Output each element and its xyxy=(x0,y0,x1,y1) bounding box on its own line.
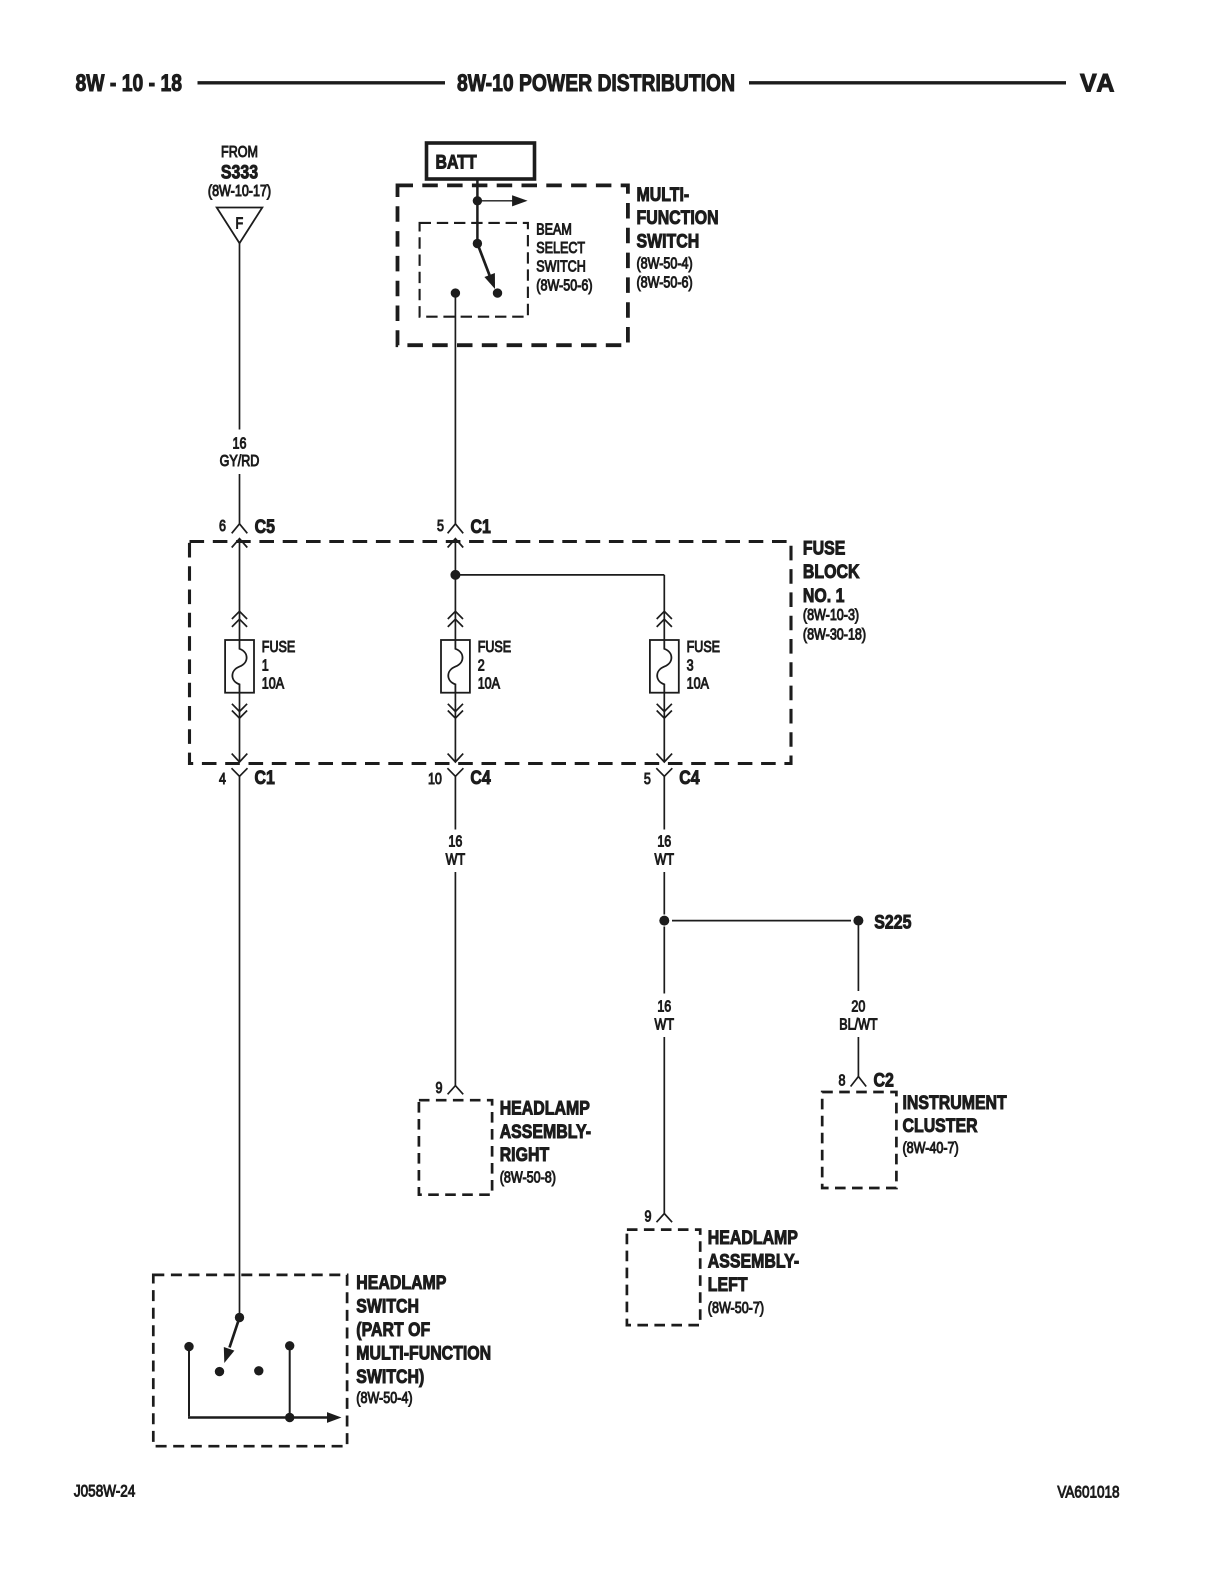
wire S333 feed upper xyxy=(239,243,241,429)
wire S225 to cluster lower xyxy=(857,1037,859,1077)
svg-text:BLOCK: BLOCK xyxy=(803,561,860,583)
headlamp assembly right dashed box xyxy=(419,1100,492,1195)
connector C5 block chevron xyxy=(232,539,248,548)
headlamp switch dashed box xyxy=(153,1275,347,1446)
switch common dot xyxy=(473,239,482,248)
svg-text:WT: WT xyxy=(655,850,675,867)
fuse 3 upper chevron b xyxy=(657,619,672,627)
fuse block out chevron C4 x664.3 xyxy=(657,754,673,762)
svg-text:3: 3 xyxy=(687,656,694,673)
wire below splice junction xyxy=(663,927,665,994)
svg-text:WT: WT xyxy=(446,850,466,867)
svg-text:6: 6 xyxy=(219,517,226,534)
wire splice horizontal xyxy=(672,920,851,922)
svg-text:J058W-24: J058W-24 xyxy=(74,1482,135,1501)
svg-text:8W-10 POWER DISTRIBUTION: 8W-10 POWER DISTRIBUTION xyxy=(457,69,735,96)
beam select switch dashed box xyxy=(420,223,528,317)
connector C1 pin chevron xyxy=(448,524,464,534)
wire down to fuse 3 xyxy=(663,575,665,649)
svg-text:FUSE: FUSE xyxy=(803,537,846,559)
svg-text:HEADLAMP: HEADLAMP xyxy=(708,1226,798,1248)
fuse 1 upper chevron a xyxy=(232,611,247,619)
svg-text:SWITCH): SWITCH) xyxy=(356,1365,424,1387)
connector fork C4 x664.3 xyxy=(656,768,672,776)
fuse 2 lower chevron a xyxy=(448,704,463,712)
svg-text:(8W-30-18): (8W-30-18) xyxy=(803,625,866,642)
switch contact off xyxy=(254,1366,263,1375)
arrowhead switch output xyxy=(327,1412,342,1423)
arrowhead switch blade xyxy=(484,273,495,289)
switch blade xyxy=(477,244,490,277)
wire C5 into fuse 1 xyxy=(239,539,241,649)
svg-text:1: 1 xyxy=(262,656,269,673)
svg-text:SELECT: SELECT xyxy=(536,239,585,256)
connector C5 pin chevron xyxy=(232,524,248,534)
junction dot fuse block xyxy=(450,570,460,580)
fuse F3 element curve xyxy=(657,640,671,693)
svg-text:20: 20 xyxy=(851,997,865,1014)
wire S225 to cluster upper xyxy=(857,926,859,992)
switch contact head xyxy=(285,1341,294,1350)
svg-text:16: 16 xyxy=(233,434,247,451)
splice S225 dot xyxy=(853,916,863,926)
wire fuse3 to splice xyxy=(663,872,665,915)
fuse 2 upper chevron b xyxy=(448,619,463,627)
svg-text:VA601018: VA601018 xyxy=(1057,1483,1119,1502)
svg-text:INSTRUMENT: INSTRUMENT xyxy=(903,1092,1007,1114)
fuse block out chevron C1 x239.5 xyxy=(232,754,248,762)
wire S333 feed lower xyxy=(239,474,241,524)
svg-text:SWITCH: SWITCH xyxy=(536,257,585,274)
connector C1 block chevron xyxy=(448,539,464,548)
fuse block out chevron C4 x455.4 xyxy=(448,754,464,762)
wire below fuse 2 xyxy=(454,693,456,762)
svg-text:C1: C1 xyxy=(255,767,275,789)
fuse F2 body xyxy=(441,640,470,693)
wire fuse2 upper xyxy=(454,776,456,829)
svg-text:HEADLAMP: HEADLAMP xyxy=(356,1271,446,1293)
wire fuse2 lower xyxy=(454,872,456,1086)
svg-text:BATT: BATT xyxy=(436,151,477,173)
svg-text:MULTI-FUNCTION: MULTI-FUNCTION xyxy=(356,1342,491,1364)
off-page connector triangle F (from S333) xyxy=(217,208,263,244)
svg-text:FUNCTION: FUNCTION xyxy=(637,207,719,229)
svg-text:FUSE: FUSE xyxy=(478,638,511,655)
connector chevron headlamp left pin 9 xyxy=(657,1214,673,1223)
svg-text:5: 5 xyxy=(644,770,651,787)
svg-text:10A: 10A xyxy=(262,674,285,691)
svg-text:C1: C1 xyxy=(471,516,491,538)
switch contact low-beam xyxy=(493,288,502,297)
junction dot batt feed xyxy=(473,196,482,205)
headlamp switch input dot xyxy=(235,1313,244,1322)
header rule left xyxy=(198,81,446,84)
fuse 2 upper chevron a xyxy=(448,611,463,619)
svg-text:(8W-50-7): (8W-50-7) xyxy=(708,1299,764,1316)
wire C1 into fuse 2 xyxy=(454,539,456,649)
svg-text:(8W-50-4): (8W-50-4) xyxy=(356,1389,412,1406)
wire switch left down xyxy=(188,1347,190,1417)
connector fork C4 x455.4 xyxy=(447,768,463,776)
svg-text:C4: C4 xyxy=(470,767,490,789)
fuse 1 lower chevron b xyxy=(232,711,247,719)
svg-text:4: 4 xyxy=(219,770,226,787)
multi-function switch dashed box xyxy=(398,185,628,345)
fuse F3 body xyxy=(650,640,679,693)
svg-text:SWITCH: SWITCH xyxy=(637,230,700,252)
svg-text:2: 2 xyxy=(478,656,485,673)
headlamp assembly left dashed box xyxy=(627,1230,700,1326)
svg-text:VA: VA xyxy=(1080,70,1116,98)
fuse F1 body xyxy=(225,640,254,693)
wire switch bottom horizontal xyxy=(188,1416,332,1419)
wire BATT to switch xyxy=(476,179,479,244)
connector fork C1 x239.5 xyxy=(232,768,248,776)
svg-text:16: 16 xyxy=(657,832,671,849)
splice junction dot xyxy=(659,916,669,926)
switch contact park xyxy=(215,1367,224,1376)
svg-text:(8W-10-3): (8W-10-3) xyxy=(803,606,859,623)
svg-text:10A: 10A xyxy=(478,674,501,691)
arrowhead headlamp switch blade xyxy=(224,1347,235,1363)
svg-text:(8W-50-8): (8W-50-8) xyxy=(500,1168,556,1185)
fuse 3 upper chevron a xyxy=(657,611,672,619)
svg-text:C5: C5 xyxy=(255,516,275,538)
connector C2 chevron xyxy=(851,1077,867,1087)
switch contact out left xyxy=(184,1342,193,1351)
svg-text:16: 16 xyxy=(657,997,671,1014)
svg-text:MULTI-: MULTI- xyxy=(637,184,690,206)
wire fuse3 upper xyxy=(663,776,665,829)
svg-text:(8W-40-7): (8W-40-7) xyxy=(903,1139,959,1156)
wire fuse1 to headlamp switch xyxy=(239,776,241,1317)
svg-text:C2: C2 xyxy=(874,1069,894,1091)
svg-text:C4: C4 xyxy=(679,767,699,789)
svg-text:16: 16 xyxy=(448,832,462,849)
svg-text:S225: S225 xyxy=(874,911,911,933)
svg-text:SWITCH: SWITCH xyxy=(356,1295,419,1317)
instrument cluster dashed box xyxy=(822,1092,896,1188)
svg-text:S333: S333 xyxy=(221,161,258,183)
svg-text:ASSEMBLY-: ASSEMBLY- xyxy=(500,1121,591,1143)
svg-text:F: F xyxy=(235,214,243,231)
fuse block no.1 dashed box xyxy=(190,542,792,764)
svg-text:BL/WT: BL/WT xyxy=(839,1015,878,1032)
wire to headlamp left xyxy=(663,1037,665,1214)
svg-text:(8W-50-4): (8W-50-4) xyxy=(637,254,693,271)
svg-text:WT: WT xyxy=(655,1015,675,1032)
header rule right xyxy=(749,81,1066,84)
arrowhead high-beam feed xyxy=(512,195,528,206)
svg-text:9: 9 xyxy=(436,1079,443,1096)
svg-text:9: 9 xyxy=(645,1207,652,1224)
svg-text:10: 10 xyxy=(428,770,442,787)
switch contact output xyxy=(451,288,460,297)
svg-text:BEAM: BEAM xyxy=(536,220,572,237)
svg-text:8W - 10 - 18: 8W - 10 - 18 xyxy=(76,69,182,96)
fuse 1 lower chevron a xyxy=(232,704,247,712)
fuse F2 element curve xyxy=(448,640,462,693)
svg-text:FROM: FROM xyxy=(221,143,258,160)
svg-text:ASSEMBLY-: ASSEMBLY- xyxy=(708,1250,799,1272)
fuse F1 element curve xyxy=(232,640,246,693)
svg-text:(8W-10-17): (8W-10-17) xyxy=(208,182,271,199)
fuse 2 lower chevron b xyxy=(448,711,463,719)
fuse 1 upper chevron b xyxy=(232,619,247,627)
wire switch to C1 xyxy=(454,293,456,524)
svg-text:GY/RD: GY/RD xyxy=(220,452,260,469)
svg-text:10A: 10A xyxy=(687,674,710,691)
wire switch right down xyxy=(289,1346,291,1418)
wire below fuse 1 xyxy=(239,693,241,762)
svg-text:FUSE: FUSE xyxy=(262,638,295,655)
battery feed box BATT xyxy=(427,143,535,179)
svg-text:8: 8 xyxy=(839,1071,846,1088)
svg-text:FUSE: FUSE xyxy=(687,638,720,655)
wire to high-beam arrow xyxy=(477,200,513,202)
svg-text:(PART OF: (PART OF xyxy=(356,1318,430,1340)
wire below fuse 3 xyxy=(663,693,665,762)
svg-text:(8W-50-6): (8W-50-6) xyxy=(536,276,592,293)
svg-text:LEFT: LEFT xyxy=(708,1273,748,1295)
svg-text:(8W-50-6): (8W-50-6) xyxy=(637,273,693,290)
svg-text:NO. 1: NO. 1 xyxy=(803,584,845,606)
wire junction to fuse 3 horizontal xyxy=(455,574,664,576)
svg-text:RIGHT: RIGHT xyxy=(500,1144,550,1166)
fuse 3 lower chevron b xyxy=(657,711,672,719)
fuse 3 lower chevron a xyxy=(657,704,672,712)
headlamp switch blade xyxy=(230,1318,240,1348)
svg-text:5: 5 xyxy=(437,517,444,534)
connector chevron headlamp right pin 9 xyxy=(448,1086,464,1095)
svg-text:HEADLAMP: HEADLAMP xyxy=(500,1097,590,1119)
svg-text:CLUSTER: CLUSTER xyxy=(903,1115,978,1137)
junction dot switch output xyxy=(285,1413,294,1422)
